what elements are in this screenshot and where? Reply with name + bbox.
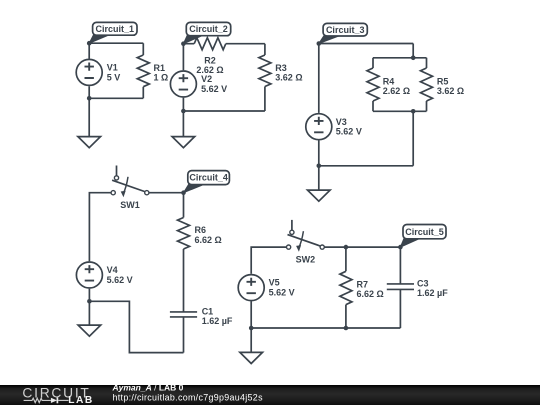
svg-text:Ayman_A / LAB 0: Ayman_A / LAB 0 <box>112 382 184 392</box>
svg-text:http://circuitlab.com/c7g9p9au: http://circuitlab.com/c7g9p9au4j52s <box>113 393 264 403</box>
svg-text:LAB: LAB <box>68 395 94 405</box>
